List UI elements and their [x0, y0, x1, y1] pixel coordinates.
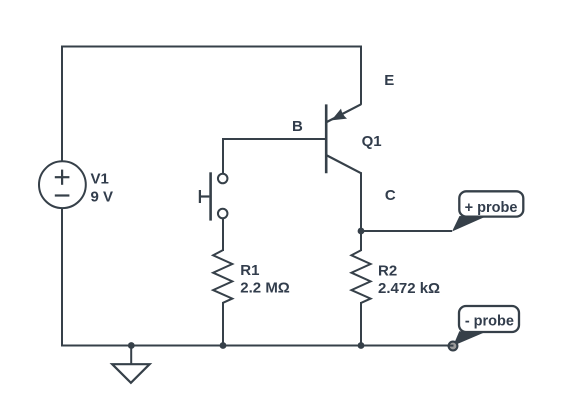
wire: R1 bottom to bottom rail: [222, 302, 224, 346]
svg-text:- probe: - probe: [465, 313, 514, 329]
wire: R2 bottom to bottom rail: [360, 302, 362, 346]
junction: R2 on bottom rail: [358, 342, 365, 349]
svg-text:9 V: 9 V: [91, 188, 114, 205]
resistor R2: [351, 250, 370, 303]
transistor Q1 (PNP): [326, 104, 361, 173]
wire: pushbutton bottom terminal to R1 top: [222, 218, 224, 251]
svg-text:C: C: [385, 187, 396, 204]
wire: bottom rail (ground net): [61, 345, 453, 347]
junction: ground stem on bottom rail: [128, 342, 135, 349]
wire: ground stem: [130, 346, 132, 365]
svg-text:2.2 MΩ: 2.2 MΩ: [240, 280, 290, 297]
svg-text:+ probe: + probe: [465, 200, 518, 216]
- probe callout box: [459, 306, 519, 332]
pushbutton switch (normally open): [200, 172, 228, 220]
probe terminal dot (- probe connection): [447, 342, 457, 351]
+ probe callout box: [459, 191, 523, 216]
junction: R1 on bottom rail: [220, 342, 227, 349]
+ probe callout tail: [452, 216, 485, 232]
- probe callout tail: [453, 331, 485, 346]
wire: collector down to junction: [360, 172, 362, 232]
resistor R1: [213, 250, 232, 303]
wire: base net corner down to pushbutton top terminal: [223, 139, 327, 174]
junction: collector / R2 / probe node: [358, 228, 365, 235]
wire: emitter from top rail down: [360, 46, 362, 105]
svg-text:V1: V1: [91, 170, 109, 187]
voltage source V1: [39, 161, 86, 208]
svg-text:R2: R2: [378, 263, 397, 280]
svg-text:B: B: [292, 118, 303, 135]
wire: junction to R2 top: [360, 231, 362, 251]
wire: left rail upper (V1 positive to top rail): [61, 46, 63, 162]
wire: collector junction to + probe tail: [361, 230, 452, 232]
svg-text:E: E: [384, 72, 394, 89]
wire: top rail: [61, 46, 362, 48]
wire: left rail lower (V1 negative to bottom rail): [61, 208, 63, 347]
svg-text:R1: R1: [240, 262, 259, 279]
ground: [112, 364, 149, 383]
svg-text:Q1: Q1: [362, 133, 382, 150]
svg-text:2.472 kΩ: 2.472 kΩ: [378, 280, 440, 297]
